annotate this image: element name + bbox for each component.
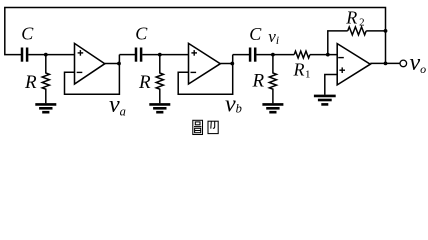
- node: output junction with feedback loop: [384, 62, 388, 66]
- wire: U3 output to terminal v_o: [370, 62, 400, 64]
- node: summing junction at U3 inverting input: [326, 53, 330, 57]
- capacitor C (stage 1): [22, 48, 27, 62]
- resistor R1 (series): [294, 51, 310, 58]
- node: v_i junction: [271, 53, 275, 57]
- caption character 圖: [193, 120, 203, 134]
- wire: summing node up to R2: [328, 31, 348, 55]
- svg-text:R: R: [24, 72, 37, 93]
- capacitor C (stage 3): [250, 48, 255, 62]
- wire: U2 output up to capacitor C (stage 3): [233, 54, 249, 56]
- wire: U3 non-inverting input to ground: [325, 75, 337, 95]
- wire: U1 output: [105, 63, 120, 65]
- node: R2 / feedback junction: [384, 29, 388, 33]
- svg-text:R: R: [252, 71, 265, 92]
- wire: global feedback loop from output top-right, across top, down left side: [5, 8, 386, 64]
- node: U2 output junction: [230, 62, 234, 66]
- node: U1 output junction: [117, 62, 121, 66]
- wire: U2 feedback loop output to inverting input: [178, 55, 233, 95]
- ground (stage 3 shunt R): [262, 104, 283, 112]
- resistor R2 (feedback): [348, 27, 366, 35]
- wire: cap1 to node a1 to op-amp U1 + input: [28, 54, 74, 56]
- svg-text:C: C: [249, 24, 262, 44]
- wire: U1 output up to capacitor C (stage 2): [119, 54, 135, 56]
- resistor R (stage 3, shunt to ground): [269, 55, 276, 104]
- op-amp U2 (voltage follower, stage 2): [189, 43, 221, 84]
- ground (U3 non-inverting input): [314, 96, 336, 105]
- wire: cap3 to node v_i to R1: [256, 54, 294, 56]
- svg-text:C: C: [135, 23, 148, 43]
- resistor R (stage 2, shunt to ground): [156, 55, 163, 104]
- op-amp U3 (inverting amplifier): [337, 44, 370, 85]
- wire: U2 output: [220, 63, 232, 65]
- node: junction stage 1: [44, 53, 48, 57]
- caption character 四: [208, 121, 218, 133]
- wire: R2 to output vertical: [366, 30, 385, 32]
- wire: U1 feedback loop output to inverting input: [65, 55, 120, 95]
- capacitor C (stage 2): [136, 48, 141, 62]
- svg-text:R: R: [138, 72, 151, 93]
- ground (stage 2): [149, 104, 170, 112]
- op-amp U1 (voltage follower, stage 1): [75, 43, 105, 84]
- wire: cap2 to node a2 to op-amp U2 + input: [142, 54, 188, 56]
- resistor R (stage 1, shunt to ground): [42, 55, 49, 104]
- terminal: v_o open circle: [400, 60, 407, 67]
- node: junction stage 2: [158, 53, 162, 57]
- ground (stage 1): [35, 104, 56, 112]
- wire: R1 to summing node: [310, 54, 337, 56]
- svg-text:C: C: [21, 23, 34, 43]
